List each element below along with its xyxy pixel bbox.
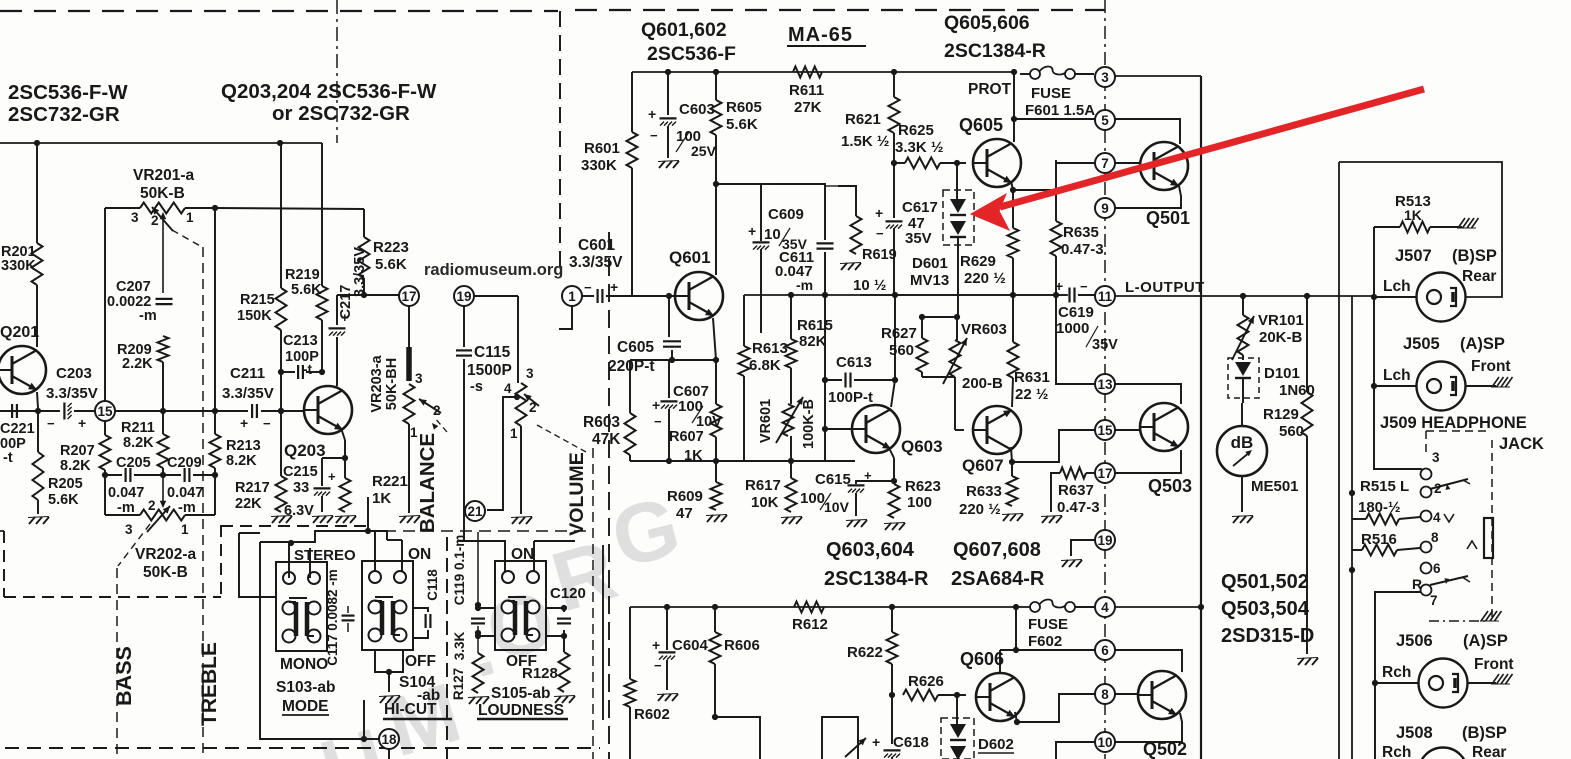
resistor R209 [158,336,169,362]
ground C615 [847,520,853,527]
capacitor C613 [825,379,842,381]
potentiometer VR602 partial [845,738,866,757]
svg-text:10 ½: 10 ½ [853,277,886,294]
headphone barrel [1484,518,1493,558]
wire Q605 collector [1013,72,1015,119]
resistor R513 [1400,222,1430,233]
wire rail mid [744,294,1068,296]
wire Q606 collector [999,650,1001,674]
node Q601 base [666,293,672,299]
resistor R629 [1012,190,1014,228]
capacitor C211 [251,404,253,418]
node R626 left [889,692,895,698]
dashed border switch top y=531 [346,530,593,532]
wire input rail y=411 [0,410,38,412]
svg-text:3.3K ½: 3.3K ½ [895,139,943,156]
resistor R631 [1012,295,1014,342]
dashed top border right part [575,9,1105,11]
svg-text:+: + [78,415,86,431]
dashed border treble x=203 [202,247,204,759]
fuse F601 [1030,69,1040,79]
svg-text:8: 8 [1431,530,1439,545]
svg-text:35V: 35V [1092,337,1118,353]
svg-text:C213: C213 [283,333,318,349]
ground R128 [555,696,561,703]
capacitor C604 electrolytic [666,607,668,650]
svg-text:R622: R622 [847,644,883,661]
svg-text:C118: C118 [425,569,440,601]
svg-text:2.2K: 2.2K [122,356,153,372]
svg-text:MA-65: MA-65 [788,24,853,46]
svg-text:27K: 27K [794,99,822,116]
long-dash divider x=609 [608,232,610,759]
connector 13 [1095,374,1115,394]
wire rail y=542 [260,531,387,542]
headphone contact 3 [1421,469,1432,480]
dash-dot connector bus x=1105 [1104,0,1106,759]
resistor R615 [790,295,792,339]
svg-text:TREBLE: TREBLE [198,642,221,726]
wire VR201 to R223 [215,208,364,209]
switch S104 HI-CUT [362,561,413,650]
node collector rail [892,292,898,298]
svg-text:Q605,606: Q605,606 [944,12,1030,34]
svg-text:10V: 10V [824,499,850,515]
wire emitter to conn8 [1017,694,1096,722]
svg-text:R617: R617 [745,477,781,494]
svg-text:47K: 47K [592,431,621,448]
ground R609 [707,515,713,522]
resistor R635 [1055,160,1057,221]
wire conn15 to Q503 base [1115,429,1140,431]
svg-text:C601: C601 [578,237,615,254]
red annotation arrow [971,89,1424,230]
svg-text:R606: R606 [724,637,760,654]
svg-text:J509 HEADPHONE: J509 HEADPHONE [1380,414,1527,432]
svg-text:3: 3 [131,210,139,225]
svg-text:C617: C617 [902,199,938,216]
wire R201 collector [36,143,38,243]
svg-text:VR201-a: VR201-a [133,167,195,184]
svg-text:10K: 10K [751,494,779,511]
resistor R619 [851,216,862,254]
node C604 [664,604,670,610]
svg-text:R625: R625 [898,122,934,139]
svg-text:18: 18 [381,732,397,747]
jack J506 [1375,682,1418,684]
wire conn3 to right bus [1115,75,1201,77]
svg-text:4: 4 [1433,510,1441,525]
dashed pointer VR202 wiper [118,524,150,566]
svg-text:ON: ON [511,546,534,563]
dashed pointer balance [434,417,447,432]
diode D602 dashed box [941,718,974,759]
wire R627 VR603 bottom join [921,372,923,377]
svg-text:+: + [748,223,756,239]
svg-text:0.47-3: 0.47-3 [1057,499,1100,516]
svg-text:C207: C207 [116,279,151,295]
svg-text:J506: J506 [1396,632,1433,650]
transistor Q501 [1140,142,1188,190]
svg-text:2SC536-F-W: 2SC536-F-W [8,81,128,104]
capacitor C215 electrolytic [322,457,345,459]
wire conn10 left [1056,742,1096,759]
wire R209 to rail [162,362,164,411]
svg-text:R613: R613 [752,340,788,357]
svg-text:R213: R213 [226,438,261,454]
svg-text:−: − [47,416,55,431]
wire emitter row y=360 [660,359,716,361]
wiper arrow VR202 [162,475,164,502]
svg-text:+: + [240,415,248,431]
node VR101 rail [1240,293,1246,299]
node R215 rail [278,408,284,414]
wire conn6 to Q502 collector [1115,650,1182,672]
svg-text:R223: R223 [373,239,409,256]
headphone contact 8 [1421,542,1432,553]
wire switch rail top [239,533,277,597]
svg-text:220 ½: 220 ½ [959,501,1001,518]
resistor R605 [711,100,722,135]
resistor R127 [477,626,479,653]
svg-text:R219: R219 [285,267,320,283]
resistor R215 [276,288,287,330]
svg-text:8: 8 [1101,687,1109,702]
wire right vertical x=603 [602,545,604,720]
resistor R607 [715,360,717,404]
svg-text:560: 560 [889,342,914,359]
svg-text:F602: F602 [1028,633,1062,650]
svg-text:C615: C615 [815,471,851,488]
wire emitter to R635 column [1013,189,1056,191]
ground C604 [658,694,664,701]
svg-text:R633: R633 [966,483,1002,500]
resistor R213 [210,434,221,468]
ground R205 [29,517,35,524]
svg-text:−: − [584,280,592,295]
wire to connector 15 [38,410,60,412]
transistor Q605 [973,139,1021,187]
svg-text:R609: R609 [667,488,703,505]
resistor R606 [714,607,716,632]
wire conn7 left [1056,162,1096,164]
capacitor C601 [582,295,594,297]
resistor R625 [905,158,940,169]
node J506 Rch [1372,680,1378,686]
connector 9 [1095,198,1115,218]
ground C215 [313,516,319,523]
lever contact 6 [1430,576,1468,585]
wire Q605 emitter [1011,181,1013,190]
svg-text:5.6K: 5.6K [291,282,322,298]
node C213 left [278,369,284,375]
svg-text:6.8K: 6.8K [749,357,781,374]
svg-text:17: 17 [1097,466,1112,481]
diode D601 a [950,199,966,213]
svg-text:4: 4 [1101,600,1109,615]
svg-text:R607: R607 [669,429,704,445]
svg-text:−: − [1080,279,1088,294]
connector 21 [465,501,485,521]
jack J507 [1374,296,1417,298]
diode D101 dashed box [1228,358,1259,398]
capacitor C617 electrolytic [893,163,895,218]
svg-text:3: 3 [526,366,534,381]
svg-text:R629: R629 [960,253,996,270]
ground conn19 [1062,560,1068,567]
wire fuse node down [1015,607,1017,650]
wire VR204 bottom to ground [520,426,522,514]
potentiometer VR603 [956,317,958,340]
svg-text:1N60: 1N60 [1279,382,1315,399]
connector 6 [1095,640,1115,660]
ground ME501 [1233,516,1239,523]
svg-text:33: 33 [293,480,309,496]
node VR201 right [212,205,218,211]
svg-text:S105-ab: S105-ab [491,685,550,702]
wire circle1 stub [559,306,572,329]
svg-text:BALANCE: BALANCE [416,433,439,533]
svg-text:D602: D602 [978,736,1014,753]
svg-text:D601: D601 [912,255,948,272]
svg-text:8.2K: 8.2K [60,458,91,474]
svg-text:1: 1 [510,426,518,441]
node cap row left [102,472,108,478]
headphone contact 4 [1421,511,1432,522]
connector 18 [379,729,399,749]
capacitor C213 [281,371,295,373]
capacitor C119 [477,532,479,605]
wire 18 down [388,749,390,759]
wire Q203 emitter [341,428,345,440]
headphone dashed outline right [1491,440,1493,620]
svg-text:R603: R603 [583,414,620,431]
resistor R623 [889,484,900,518]
node C603 top [665,69,671,75]
resistor R637 [1060,468,1086,479]
meter ME501 dB [1217,426,1267,476]
ground R221 [336,516,342,523]
wire conn13 left riser [1056,297,1096,384]
svg-text:+: + [652,637,660,653]
svg-text:C609: C609 [768,206,804,223]
svg-text:−: − [654,414,662,429]
svg-text:J508: J508 [1396,724,1433,742]
svg-text:R605: R605 [726,99,762,116]
svg-text:Q607: Q607 [962,456,1004,475]
node R606 [712,604,718,610]
fuse F602 [1030,602,1040,612]
svg-text:FUSE: FUSE [1028,616,1068,633]
resistor R611 [793,67,822,78]
svg-text:22 ½: 22 ½ [1015,386,1048,403]
node R622 [889,604,895,610]
svg-text:R207: R207 [60,443,95,459]
svg-text:PROT: PROT [968,81,1012,98]
jack J508 partial [1419,748,1468,759]
wire collector rail to conn6 [1000,649,1096,651]
wire VR201 box left [104,208,106,401]
wire J505 to tip contact [1374,386,1424,471]
wire Q601 emitter [713,318,716,360]
jack J505 [1374,385,1417,387]
svg-text:F601 1.5A: F601 1.5A [1025,102,1095,119]
potentiometer VR203 slider bar [408,306,410,347]
svg-text:9: 9 [1101,201,1109,216]
switch S103 MODE [276,562,327,651]
svg-text:3.3K: 3.3K [452,631,467,660]
node bus R516 [1349,567,1355,573]
svg-text:R619: R619 [862,247,897,263]
connector 19 right [1095,530,1115,550]
svg-text:2: 2 [151,213,159,228]
wire conn10 right [1115,741,1182,743]
capacitor C607 electrolytic [668,360,670,398]
svg-text:C120: C120 [550,585,586,602]
wire bottom rail y=607 [630,606,1016,608]
svg-text:2SC732-GR: 2SC732-GR [8,103,120,126]
wire R605 down to Q601 collector [715,135,717,184]
svg-text:Q201: Q201 [0,324,39,341]
svg-text:50K-B: 50K-B [140,185,185,202]
wire to connector 18 [363,700,365,739]
svg-text:2SD315-D: 2SD315-D [1221,625,1314,647]
resistor R207 [100,435,111,470]
wire D601 column [956,163,958,199]
svg-text:(B)SP: (B)SP [1452,247,1497,265]
wiper arrow VR203 [419,399,441,413]
wire top rail y=72 [632,71,1014,73]
lever mark contact8 [1467,541,1477,549]
svg-text:MV13: MV13 [910,272,949,289]
wire J505 column [1373,297,1375,386]
svg-text:2SC1384-R: 2SC1384-R [824,568,929,590]
svg-text:+: + [1055,278,1063,294]
svg-text:21: 21 [467,504,483,519]
svg-text:MONO: MONO [280,656,328,673]
svg-text:R615: R615 [797,317,833,334]
lever mark contact4 [1444,514,1454,522]
svg-text:13: 13 [1097,377,1113,392]
connector 3 [1095,67,1115,87]
resistor R621 [889,97,900,133]
svg-text:2: 2 [148,498,156,513]
svg-text:R635: R635 [1063,224,1099,241]
svg-text:R: R [1412,576,1422,592]
svg-text:−: − [654,658,662,673]
svg-text:3.3/35V: 3.3/35V [352,247,368,297]
wire right box [1339,162,1502,297]
wire Q201 emitter to node [37,392,38,408]
wire J505 contact to chassis [1465,385,1496,387]
transistor Q601 [675,272,723,320]
resistor R221 [340,478,351,512]
node cap row right [212,472,218,478]
svg-text:R211: R211 [121,420,155,436]
svg-text:C215: C215 [283,464,318,480]
node Q201 emitter junction [35,408,41,414]
svg-text:R205: R205 [48,476,83,492]
connector 19 left [454,286,474,306]
svg-text:3: 3 [125,522,133,537]
wire R213 node down [214,475,216,515]
transistor Q603 [852,405,900,453]
wire y=295 to connector 17 [337,294,399,296]
svg-text:-m: -m [796,277,813,293]
ground S104 [380,696,386,703]
node C613 rail [822,292,828,298]
svg-text:R637: R637 [1058,482,1094,499]
wire conn4 to bus [1115,606,1201,608]
svg-text:-m: -m [178,500,196,516]
svg-text:25V: 25V [691,143,717,159]
svg-text:+: + [610,279,618,295]
svg-text:Q501,502: Q501,502 [1221,571,1309,593]
transistor Q201 [0,346,46,394]
potentiometer VR101 [1242,296,1244,315]
wire row y=461 [630,460,855,462]
capacitor C207 [156,298,173,300]
wire rail left corner [629,607,631,679]
resistor R601 [627,132,638,168]
wire collector to connector 5 [1014,118,1095,120]
wire pin4 to connector 21 [487,397,517,510]
wire conn8 to Q502 base [1115,693,1138,695]
node R223 bottom [361,292,367,298]
svg-text:50K-BH: 50K-BH [384,358,400,410]
resistor R201 [32,243,43,285]
connector 10 [1095,732,1115,752]
svg-text:100: 100 [800,490,825,507]
svg-text:(A)SP: (A)SP [1463,632,1508,650]
resistor R627 [921,317,923,338]
svg-text:-t: -t [3,450,13,466]
wire conn19 to VR204 [474,295,518,297]
svg-text:+: + [875,205,883,221]
connector 8 [1095,684,1115,704]
svg-text:(A)SP: (A)SP [1460,335,1505,353]
wire contact7 to J506 [1375,592,1421,683]
wire rail corner down to R601 [631,72,633,132]
svg-text:7: 7 [1430,593,1438,608]
dash-dot channel divider x=337 [336,0,338,143]
svg-text:-t: -t [303,362,312,377]
svg-text:1.5K ½: 1.5K ½ [841,133,889,150]
svg-text:5.6K: 5.6K [48,492,79,508]
wire Q502 emitter [1180,713,1182,742]
node R605 top [713,69,719,75]
transistor Q502 [1138,671,1186,719]
connector 11 [1095,286,1115,306]
resistor R609 [715,461,717,482]
connector 7 [1095,153,1115,173]
svg-text:6.3V: 6.3V [284,503,314,519]
svg-text:Q603: Q603 [901,437,943,456]
svg-text:35V: 35V [905,230,932,247]
node stereo wire [288,540,294,546]
svg-text:R215: R215 [240,292,275,308]
svg-text:R221: R221 [372,473,408,490]
node J507 Lch [1371,294,1377,300]
svg-text:radiomuseum.org: radiomuseum.org [424,261,563,279]
potentiometer VR202 [140,510,185,521]
capacitor C611 [817,242,834,244]
svg-text:C604: C604 [672,637,709,654]
ground R633 [1003,514,1009,521]
wire rail right of 15 [115,410,248,412]
svg-text:47: 47 [676,505,693,522]
svg-text:S103-ab: S103-ab [276,679,335,696]
